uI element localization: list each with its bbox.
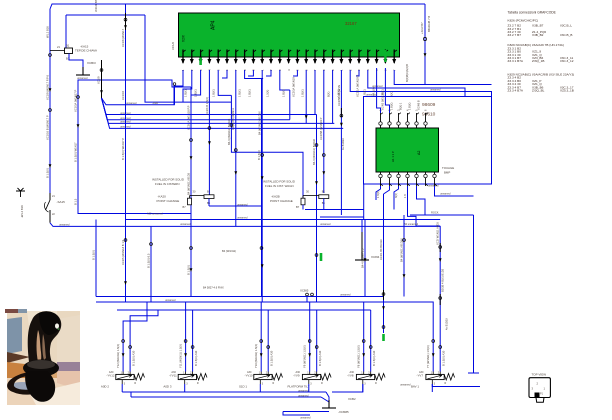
wire column <box>150 226 152 302</box>
svg-text:XC3/4 B 1.5(X): XC3/4 B 1.5(X) <box>205 97 209 115</box>
wire valve feed <box>309 302 311 372</box>
svg-text:XZ5.3_1B: XZ5.3_1B <box>560 89 574 93</box>
IC U1 pins <box>182 50 184 64</box>
svg-text:Y7 (W1N11) 1.5(X): Y7 (W1N11) 1.5(X) <box>426 345 430 368</box>
svg-text:H1 1 1 P: H1 1 1 P <box>391 151 395 162</box>
wire column <box>439 226 441 372</box>
svg-text:-XC8M5: -XC8M5 <box>338 410 349 414</box>
connector <box>124 18 127 21</box>
valve YV12 <box>116 374 134 379</box>
svg-text:B 1.5(X) A30: B 1.5(X) A30 <box>442 350 446 366</box>
svg-text:Z3.3 1 B7A: Z3.3 1 B7A <box>508 59 524 63</box>
wire top rail <box>50 4 425 9</box>
photo joystick <box>5 309 80 405</box>
wire rail <box>209 205 262 207</box>
wire <box>435 186 474 196</box>
svg-text:B(X): B(X) <box>327 92 331 97</box>
wire hook <box>384 186 390 194</box>
wire <box>424 4 426 85</box>
svg-text:A0D 3: A0D 3 <box>163 384 171 388</box>
svg-text:XC4/6 B: XC4/6 B <box>417 100 421 110</box>
arrow <box>190 268 193 272</box>
wire <box>363 184 365 220</box>
wire <box>289 90 291 120</box>
wire column <box>383 194 385 333</box>
svg-text:TEP.DE CHIAVA: TEP.DE CHIAVA <box>75 49 97 53</box>
svg-text:XC2/1 B4 B1D3X: XC2/1 B4 B1D3X <box>379 239 383 260</box>
connector <box>306 293 309 296</box>
svg-text:98610: 98610 <box>422 112 436 118</box>
svg-text:XC1/8 (W1N17: XC1/8 (W1N17 <box>121 28 125 47</box>
svg-text:W1.2 B16: W1.2 B16 <box>45 26 49 38</box>
wire <box>248 70 253 76</box>
svg-text:B4 (W1N11) B1D3X: B4 (W1N11) B1D3X <box>258 111 262 135</box>
svg-text:R: R <box>375 382 377 385</box>
svg-text:XC3/5 (W1N18 B 1.5: XC3/5 (W1N18 B 1.5 <box>121 239 125 265</box>
wire <box>283 411 329 413</box>
relay KA2B contact <box>301 198 305 205</box>
svg-text:B1: B1 <box>322 190 326 194</box>
wire KA15 to ground <box>69 54 83 68</box>
connector <box>439 246 442 249</box>
svg-text:unnamed: unnamed <box>126 102 137 105</box>
svg-text:B4 unnamed: B4 unnamed <box>404 223 419 226</box>
wire valve out <box>184 384 186 392</box>
svg-text:1 B(X): 1 B(X) <box>337 89 341 97</box>
svg-text:B4 5827-4.6 FN/X: B4 5827-4.6 FN/X <box>203 286 224 290</box>
connector <box>260 247 263 250</box>
wire <box>191 70 201 95</box>
svg-text:BAV 1: BAV 1 <box>411 384 419 388</box>
wire <box>408 186 441 226</box>
wire column <box>261 79 263 297</box>
connector <box>315 254 318 257</box>
relay KA20 contact <box>188 198 192 205</box>
arrow <box>260 353 263 357</box>
svg-text:XCBI3: XCBI3 <box>87 61 96 65</box>
wire <box>368 70 465 97</box>
connector <box>230 124 233 127</box>
svg-text:B 1.5(X) A30: B 1.5(X) A30 <box>194 350 198 366</box>
svg-text:1 B(X): 1 B(X) <box>194 89 198 97</box>
svg-text:-YV7: -YV7 <box>417 374 424 378</box>
svg-text:-YV12: -YV12 <box>106 374 114 378</box>
connector <box>234 149 237 152</box>
ground XC8I4 <box>355 252 369 260</box>
wire column <box>125 4 127 302</box>
wire <box>218 70 231 95</box>
svg-text:B 1.5(X) A30: B 1.5(X) A30 <box>270 350 274 366</box>
svg-text:B 1.5(X) A30: B 1.5(X) A30 <box>318 350 322 366</box>
wire valve feed <box>316 310 318 372</box>
connector XC1/9 <box>101 60 103 98</box>
svg-text:XCBI5: XCBI5 <box>300 289 309 293</box>
svg-text:ROCK: ROCK <box>431 211 439 215</box>
wire bundle <box>102 98 344 128</box>
wire valve feed <box>370 310 372 372</box>
relay KA2B coil <box>319 195 329 199</box>
svg-text:1.5(X): 1.5(X) <box>266 90 270 97</box>
svg-text:B7: B7 <box>296 205 300 209</box>
svg-text:B 1.5(X) 6.5: B 1.5(X) 6.5 <box>146 253 150 268</box>
wire <box>377 68 381 113</box>
wire contact down <box>302 205 304 210</box>
connector pin <box>388 174 391 177</box>
wire coil down <box>208 199 210 207</box>
arrow <box>190 156 193 160</box>
svg-text:XC2/1A (W1N19 P: XC2/1A (W1N19 P <box>356 75 360 97</box>
svg-text:AP4: AP4 <box>211 20 217 30</box>
svg-text:unnamed: unnamed <box>400 384 411 387</box>
svg-text:B4 (W1N11): B4 (W1N11) <box>222 249 236 253</box>
wire <box>222 70 227 78</box>
svg-text:I/3C.B_L: I/3C.B_L <box>560 24 572 28</box>
svg-text:4x B1D3X: 4x B1D3X <box>341 138 345 150</box>
svg-text:XC1/16 B (W1N17 P: XC1/16 B (W1N17 P <box>45 115 49 140</box>
connector <box>340 114 343 117</box>
wire rail <box>320 216 364 218</box>
connector <box>439 297 442 300</box>
svg-text:S1D 1: S1D 1 <box>239 384 247 388</box>
connector pin <box>379 122 382 125</box>
wire bundle <box>102 98 317 115</box>
svg-text:-YV9: -YV9 <box>293 374 300 378</box>
connector pin <box>433 174 436 177</box>
arrow <box>184 353 187 357</box>
connector <box>308 340 311 343</box>
svg-text:X3B_B2: X3B_B2 <box>532 33 544 37</box>
wire second rail <box>66 14 145 16</box>
svg-text:B 1.5(X): B 1.5(X) <box>91 250 95 260</box>
wire column <box>403 215 405 297</box>
svg-text:B1: B1 <box>66 44 70 48</box>
wire <box>321 397 329 402</box>
wire rail drop <box>145 15 231 102</box>
wire column <box>340 70 342 215</box>
wire <box>65 15 67 48</box>
wire hook <box>394 186 399 210</box>
svg-text:XC2/ W1N11 A4D3: XC2/ W1N11 A4D3 <box>436 222 440 245</box>
arrow <box>439 258 442 262</box>
connector <box>190 247 193 250</box>
connector <box>403 239 406 242</box>
svg-text:X2/X: X2/X <box>182 34 186 42</box>
svg-text:Y8 (W1N11) 1.5(X): Y8 (W1N11) 1.5(X) <box>357 345 361 368</box>
wire valve feed <box>260 302 262 372</box>
valve YV9 <box>302 374 320 379</box>
wire <box>131 396 321 398</box>
connector <box>439 346 442 349</box>
svg-text:-W1.2 B16: -W1.2 B16 <box>20 205 24 218</box>
svg-text:XC4/5 (W1N19: XC4/5 (W1N19 <box>381 92 385 110</box>
arrow <box>124 281 127 285</box>
wire <box>356 70 359 76</box>
svg-text:POINT CHANGE: POINT CHANGE <box>157 199 180 203</box>
wire L1 <box>102 98 175 105</box>
wire rail <box>96 302 433 372</box>
ground XC8I4 <box>361 232 363 260</box>
svg-text:unnamed: unnamed <box>430 89 441 92</box>
svg-text:A0D 2: A0D 2 <box>101 384 109 388</box>
wire <box>332 384 363 392</box>
svg-text:X3B_B7: X3B_B7 <box>532 24 544 28</box>
wire column <box>323 70 325 193</box>
wire <box>326 392 329 402</box>
svg-text:INSTALLED FOR SOLID: INSTALLED FOR SOLID <box>263 180 295 184</box>
connector <box>191 346 194 349</box>
ground XC8M5 <box>322 400 336 408</box>
svg-text:B7: B7 <box>183 205 187 209</box>
relay KA20 coil <box>204 195 214 199</box>
connector <box>369 346 372 349</box>
connector <box>382 293 385 296</box>
wire <box>306 296 308 302</box>
connector <box>190 139 193 142</box>
wire <box>231 95 303 197</box>
svg-text:Y10 (W1N11) 1.5(X): Y10 (W1N11) 1.5(X) <box>254 344 258 368</box>
wire <box>78 80 192 87</box>
svg-text:R: R <box>197 382 199 385</box>
svg-text:B 1.5(X) A30: B 1.5(X) A30 <box>132 350 136 366</box>
wire right drop <box>473 215 475 373</box>
svg-text:XC1/9 (W1N17 P.P 6: XC1/9 (W1N17 P.P 6 <box>45 74 49 100</box>
svg-text:unnamed: unnamed <box>237 216 248 219</box>
connector <box>124 239 127 242</box>
arrow <box>100 90 103 94</box>
svg-text:POINT CHANGE: POINT CHANGE <box>270 199 293 203</box>
svg-text:PLATFORM TILT: PLATFORM TILT <box>288 384 310 388</box>
wire rail <box>410 214 474 216</box>
wire <box>245 70 264 79</box>
wire rail <box>117 309 371 311</box>
arrow <box>308 353 311 357</box>
connector <box>208 127 211 130</box>
arrow <box>122 353 125 357</box>
wire <box>50 223 57 227</box>
arrow <box>77 124 80 128</box>
svg-text:B2/3B 4 B(X) B1D3: B2/3B 4 B(X) B1D3 <box>441 268 445 292</box>
IC U1 AP4 32167 <box>179 13 400 57</box>
arrow <box>208 141 211 145</box>
svg-text:INSTALLED FOR SOLID: INSTALLED FOR SOLID <box>152 178 184 182</box>
wire valve out <box>362 384 364 392</box>
wire valve feed <box>185 302 187 372</box>
wire <box>385 68 389 113</box>
svg-text:XC1/0: XC1/0 <box>171 42 175 50</box>
svg-text:unnamed: unnamed <box>340 294 351 297</box>
wire valve feed <box>123 302 147 372</box>
svg-text:-A3D: -A3D <box>152 101 158 105</box>
arrow <box>124 25 127 29</box>
arrow <box>424 53 427 57</box>
svg-text:Z3.2 7 B7: Z3.2 7 B7 <box>508 33 522 37</box>
connector <box>382 326 385 329</box>
connector <box>261 154 264 157</box>
svg-text:B(X) 1: B(X) 1 <box>399 102 403 110</box>
wire <box>78 80 191 214</box>
svg-text:32167: 32167 <box>345 21 357 26</box>
svg-text:unnamed: unnamed <box>300 417 311 420</box>
connector <box>362 340 365 343</box>
wire <box>314 70 316 114</box>
wire <box>394 70 491 85</box>
connector <box>315 144 318 147</box>
svg-text:unnamed: unnamed <box>366 94 377 97</box>
svg-text:W1N1 B6: W1N1 B6 <box>94 0 98 12</box>
svg-text:TOUAGE: TOUAGE <box>442 166 454 170</box>
connector <box>77 96 80 99</box>
svg-text:B 1.5(X): B 1.5(X) <box>257 150 261 160</box>
wire <box>350 70 491 97</box>
connector pin <box>397 122 400 125</box>
wire <box>266 70 271 76</box>
svg-text:XC2/3A (W1N19: XC2/3A (W1N19 <box>292 77 296 97</box>
svg-text:1 B: 1 B <box>404 194 407 198</box>
svg-text:XC3/2A (W1N18 P.P: XC3/2A (W1N18 P.P <box>186 105 190 130</box>
symbol W1.2 <box>16 188 25 197</box>
connector <box>129 346 132 349</box>
svg-text:unnamed: unnamed <box>298 389 309 392</box>
svg-text:B1: B1 <box>207 190 211 194</box>
valve YV7 <box>426 374 444 379</box>
wire <box>332 70 334 123</box>
connector pin <box>397 174 400 177</box>
svg-text:FUEL IN CISTERN: FUEL IN CISTERN <box>155 182 179 186</box>
connector pin <box>424 122 427 125</box>
connector pin <box>415 174 418 177</box>
svg-text:R: R <box>134 382 136 385</box>
svg-text:unnamed: unnamed <box>440 193 451 196</box>
switch SA15 <box>49 193 51 200</box>
wire <box>432 384 480 387</box>
wire <box>417 186 426 215</box>
connector <box>49 109 52 112</box>
svg-text:B(X): B(X) <box>395 193 398 198</box>
arrow <box>234 171 237 175</box>
wire bundle <box>102 98 290 120</box>
svg-text:-SA15: -SA15 <box>57 200 66 204</box>
wire column <box>261 70 263 302</box>
wire rail <box>96 296 383 298</box>
svg-text:Y9 (W1N11) 1.5(X): Y9 (W1N11) 1.5(X) <box>303 345 307 368</box>
svg-text:B4-4 (W1N11) B1D3X: B4-4 (W1N11) B1D3X <box>227 119 231 145</box>
svg-text:FUEL IN CIST. WAGN: FUEL IN CIST. WAGN <box>265 184 294 188</box>
wire <box>95 220 97 297</box>
svg-text:1 B(X) B4 (W1N11: 1 B(X) B4 (W1N11 <box>231 107 235 130</box>
svg-text:98609: 98609 <box>422 102 436 108</box>
arrow <box>403 274 406 278</box>
connector pin <box>379 174 382 177</box>
wire column <box>235 70 237 226</box>
svg-text:XC1/3A (W1N17 P: XC1/3A (W1N17 P <box>73 90 77 112</box>
wire left rail <box>49 9 51 193</box>
wire <box>174 87 176 105</box>
arrow <box>315 181 318 185</box>
wire <box>122 391 326 393</box>
svg-text:B 1.5(X) A30: B 1.5(X) A30 <box>372 350 376 366</box>
valve YV10 <box>254 374 272 379</box>
connector <box>184 340 187 343</box>
wire column <box>208 70 210 195</box>
svg-text:-YV11: -YV11 <box>169 374 177 378</box>
svg-text:B(X)B(X)A(X)B: B(X)B(X)A(X)B <box>405 64 409 82</box>
connector <box>267 346 270 349</box>
arrow <box>362 353 365 357</box>
wire <box>183 70 192 102</box>
connector <box>311 293 314 296</box>
connector <box>260 340 263 343</box>
wire rail <box>57 225 440 227</box>
connector <box>173 83 176 86</box>
wire valve out <box>121 384 123 392</box>
wire valve feed <box>267 310 269 372</box>
arrow <box>322 171 325 175</box>
svg-text:unnamed: unnamed <box>298 395 309 398</box>
svg-text:I/3C.B_B: I/3C.B_B <box>560 33 572 37</box>
wire bundle <box>102 98 335 123</box>
arrow <box>261 176 264 180</box>
svg-text:R: R <box>321 382 323 385</box>
arrow <box>340 123 343 127</box>
wire valve out <box>431 384 433 392</box>
connector pin <box>388 122 391 125</box>
arrow <box>432 353 435 357</box>
wire valve feed <box>192 310 194 372</box>
connector <box>150 243 153 246</box>
wire box around U2 <box>364 97 492 185</box>
ground XCBI3 <box>76 67 90 75</box>
arrow <box>364 258 367 262</box>
svg-text:I/3C.3_12: I/3C.3_12 <box>560 59 574 63</box>
wire <box>361 220 363 233</box>
connector <box>322 154 325 157</box>
connector pin <box>406 174 409 177</box>
svg-text:XC2/5B (W1N19 P: XC2/5B (W1N19 P <box>319 117 323 140</box>
arrow <box>305 115 308 119</box>
wire <box>174 70 183 105</box>
valve YV11 <box>178 374 196 379</box>
valve YV8 <box>356 374 374 379</box>
svg-text:B4 (W1N11) B1D3X: B4 (W1N11) B1D3X <box>399 238 403 262</box>
connector <box>122 340 125 343</box>
svg-text:B 1.5(X): B 1.5(X) <box>186 265 190 275</box>
svg-text:1 B(X): 1 B(X) <box>301 89 305 97</box>
wire valve out <box>308 384 310 392</box>
wire <box>293 70 297 76</box>
wire column <box>364 220 366 297</box>
svg-text:XC1/9: XC1/9 <box>97 76 101 84</box>
connector <box>49 54 52 57</box>
svg-text:B4-4 (W1N11) B1D3X: B4-4 (W1N11) B1D3X <box>312 139 316 165</box>
connector <box>432 340 435 343</box>
arrow <box>382 306 385 310</box>
svg-text:4x B1D3X: 4x B1D3X <box>445 318 449 330</box>
svg-text:K826 (PCM/CHIC/PC): K826 (PCM/CHIC/PC) <box>508 18 539 22</box>
arrow <box>49 88 52 92</box>
IC U2 98609/98610 <box>376 128 439 172</box>
svg-text:-YV8: -YV8 <box>347 374 354 378</box>
svg-text:A2: A2 <box>417 151 421 155</box>
wire <box>130 392 132 397</box>
svg-text:B 1.5(X) W1N17 P: B 1.5(X) W1N17 P <box>121 138 125 160</box>
svg-text:R: R <box>273 382 275 385</box>
svg-text:1 B(X): 1 B(X) <box>184 89 188 97</box>
connector pin <box>415 122 418 125</box>
connector <box>423 37 426 40</box>
svg-text:unnamed: unnamed <box>320 223 331 226</box>
svg-text:1 B(X): 1 B(X) <box>238 89 242 97</box>
wire <box>190 87 192 297</box>
